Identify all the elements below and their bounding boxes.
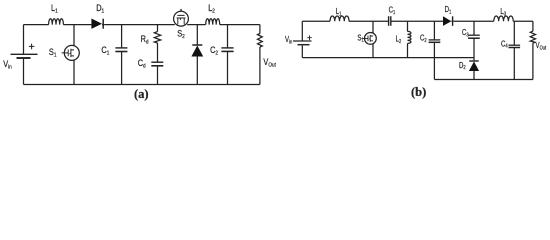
capacitor C4 (b) (513, 21, 515, 45)
wire: (b) top rail C1 to D1 (391, 20, 443, 22)
svg-text:D1: D1 (445, 6, 452, 14)
svg-text:VOut: VOut (263, 58, 276, 69)
wire: (a) top rail from S2 to L2 (187, 24, 205, 26)
wire: (b) top rail L1 to C1 (349, 20, 388, 22)
transistor S1 (a) MOSFET in circle (73, 25, 75, 46)
capacitor C3 (b) (473, 21, 475, 35)
svg-text:C3: C3 (462, 30, 469, 38)
svg-text:L2: L2 (396, 36, 402, 44)
battery Vin (b) (301, 21, 303, 41)
diode D1 (91, 19, 102, 29)
svg-text:D1: D1 (96, 4, 104, 15)
capacitor C2 (a) (227, 25, 229, 48)
svg-text:C1: C1 (389, 7, 396, 15)
svg-text:Vin: Vin (285, 37, 293, 45)
svg-text:S1: S1 (357, 35, 364, 43)
svg-text:(a): (a) (134, 87, 149, 101)
transistor S1 (b) (372, 21, 374, 33)
svg-text:Vin: Vin (3, 60, 12, 71)
diode (a) vertical freewheel (196, 25, 198, 45)
inductor L2 (206, 19, 220, 25)
wire: (a) top rail from L1 to D1 (63, 24, 91, 26)
capacitor C1 (a) (121, 25, 123, 48)
wire: (b) lower rail (434, 79, 533, 81)
resistor R load (b) (530, 31, 535, 43)
inductor L1 (b) (330, 16, 349, 21)
wire: (a) top rail from D1 to S2 (105, 24, 175, 26)
wire: Rd to Cd (157, 43, 159, 62)
wire: (a) top rail from L2 to right corner (220, 24, 260, 26)
svg-text:VOut: VOut (536, 42, 547, 50)
svg-text:L2: L2 (208, 3, 215, 14)
svg-text:S1: S1 (49, 47, 57, 58)
transistor S2 (MOSFET in circle, on top rail) (174, 11, 189, 26)
wire: (a) right column below load (259, 47, 261, 85)
battery Vin (a) (23, 25, 25, 54)
svg-text:C1: C1 (101, 46, 109, 57)
diode D1 (b) (443, 16, 451, 26)
svg-text:D2: D2 (459, 62, 466, 70)
resistor R load (a) (258, 34, 263, 48)
wire: (b) top rail L3 to corner (513, 20, 533, 22)
svg-text:L3: L3 (500, 8, 506, 16)
wire: (b) top rail D1 to L3 (454, 20, 494, 22)
wire: (a) bottom rail (24, 84, 260, 86)
diode D2 (b) (469, 60, 479, 62)
svg-text:C4: C4 (501, 41, 508, 49)
svg-text:C2: C2 (420, 35, 427, 43)
svg-text:S2: S2 (177, 29, 185, 40)
svg-text:Rd: Rd (141, 34, 149, 45)
svg-text:(b): (b) (411, 85, 426, 99)
svg-text:C2: C2 (210, 45, 218, 56)
inductor L1 (49, 19, 64, 25)
svg-text:L1: L1 (336, 9, 342, 17)
resistor Rd (157, 25, 159, 32)
capacitor C1 (b) horizontal (388, 16, 390, 26)
svg-text:Cd: Cd (138, 59, 146, 70)
wire: (b) main bottom rail (302, 57, 474, 59)
svg-text:L1: L1 (51, 4, 58, 15)
inductor L3 (494, 16, 513, 21)
capacitor C2 (b) (433, 21, 435, 40)
wire: (b) right column below load (532, 43, 534, 80)
wire: (a) right column above load (259, 25, 261, 34)
wire: (b) right column above load (532, 21, 534, 31)
inductor L2 (b) vertical (407, 21, 409, 31)
capacitor Cd (151, 61, 163, 63)
wire: (b) top rail left (302, 20, 330, 22)
wire: (a) top rail left segment (24, 24, 49, 26)
